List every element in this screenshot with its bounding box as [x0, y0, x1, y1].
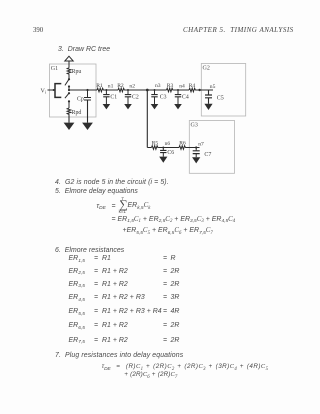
- running head CHAPTER 5. TIMING ANALYSIS: [183, 26, 294, 34]
- resistor R1: [97, 88, 104, 92]
- ground under C4: [174, 104, 182, 109]
- branch wire to R5: [147, 147, 151, 149]
- item 6 heading: [55, 247, 124, 254]
- node output junction dot: [68, 89, 70, 91]
- resistor R6: [179, 146, 186, 150]
- resistor Rpu: [67, 68, 71, 75]
- ground under C6: [159, 157, 167, 163]
- svg-text:C7: C7: [204, 152, 211, 158]
- resistor R2: [118, 88, 125, 92]
- wire Vi to bracket: [48, 89, 56, 91]
- svg-text:Vi: Vi: [41, 88, 47, 94]
- wire n1 to C1: [105, 90, 107, 94]
- svg-text:C1: C1: [110, 95, 117, 101]
- branch wire down: [146, 90, 148, 148]
- capacitor C5: [205, 95, 212, 98]
- wire n3 to C3: [154, 90, 156, 94]
- ground under Rpd: [64, 123, 75, 130]
- wire VDD to Rpu: [68, 61, 70, 68]
- capacitor C2: [125, 95, 131, 97]
- VDD supply symbol: [65, 56, 73, 61]
- svg-text:R6: R6: [179, 141, 186, 147]
- item 7 heading: [55, 352, 183, 359]
- svg-text:Rpd: Rpd: [72, 110, 82, 116]
- wire output rail G1 to R1: [69, 89, 97, 91]
- svg-text:G3: G3: [191, 123, 198, 129]
- node n2 junction dot: [127, 89, 129, 91]
- svg-text:C6: C6: [167, 150, 174, 156]
- input bracket: [55, 84, 61, 98]
- svg-text:n1: n1: [108, 84, 114, 90]
- svg-text:n6: n6: [165, 141, 171, 147]
- svg-text:n5: n5: [210, 84, 216, 90]
- page number 390: [33, 27, 43, 34]
- svg-text:R3: R3: [167, 83, 174, 89]
- wire C6 to ground: [162, 153, 164, 157]
- wire R1 to R2: [104, 89, 118, 91]
- box G1: [50, 64, 97, 117]
- wire Rpu to switch: [68, 74, 70, 79]
- wire n4 to C4: [177, 90, 179, 94]
- svg-text:C3: C3: [160, 95, 167, 101]
- wire C1 to ground: [105, 97, 107, 104]
- wire pmos to output node: [68, 87, 70, 91]
- capacitor Cp junction dot: [86, 89, 88, 91]
- wire R3 to R4: [173, 89, 189, 91]
- nmos switch lever: [65, 93, 69, 98]
- equation tau sum line: [97, 203, 106, 210]
- resistor R3: [167, 88, 174, 92]
- nmos pivot dot: [68, 92, 70, 94]
- wire R4 into G2: [196, 89, 213, 91]
- svg-text:G2: G2: [203, 66, 210, 72]
- wire C7 to ground: [195, 154, 197, 158]
- svg-text:R1: R1: [96, 83, 103, 89]
- capacitor C6: [160, 150, 166, 152]
- wire R5 to R6: [158, 147, 179, 149]
- equation expanded line 1: [112, 216, 116, 223]
- ground under C7: [192, 157, 200, 163]
- svg-text:n4: n4: [179, 84, 185, 90]
- wire Cp to ground: [87, 100, 89, 123]
- equation expanded line 2: [123, 227, 213, 234]
- wire Rpd to ground: [68, 116, 70, 123]
- svg-text:G1: G1: [51, 66, 58, 72]
- svg-text:R4: R4: [189, 83, 196, 89]
- item 5 heading: [55, 188, 138, 195]
- node n6 junction dot: [162, 147, 164, 149]
- item 3 heading: [58, 46, 110, 53]
- node dot pmos top: [68, 78, 70, 80]
- G2 entry junction dot: [198, 89, 200, 91]
- wire C3 to ground: [154, 97, 156, 104]
- wire C4 to ground: [177, 97, 179, 104]
- svg-text:R2: R2: [117, 83, 124, 89]
- svg-text:C4: C4: [182, 95, 189, 101]
- ground under C2: [124, 104, 132, 109]
- svg-text:C2: C2: [132, 95, 139, 101]
- capacitor C7: [193, 151, 200, 154]
- wire rail to Cp: [87, 90, 89, 97]
- node n1 junction dot: [105, 89, 107, 91]
- resistor Rpd: [67, 108, 71, 116]
- wire C2 to ground: [127, 97, 129, 104]
- final equation line 1: [102, 363, 111, 370]
- resistor R4: [189, 88, 196, 92]
- node n3 junction dot: [154, 89, 156, 91]
- input dot: [53, 89, 55, 91]
- box G3: [189, 121, 234, 174]
- wire R2 to R3: [125, 89, 167, 91]
- svg-text:C5: C5: [217, 95, 224, 101]
- ground under Cp: [82, 123, 93, 130]
- item 4 heading: [55, 179, 169, 186]
- svg-text:n3: n3: [155, 83, 161, 89]
- svg-text:Rpu: Rpu: [72, 69, 82, 75]
- svg-text:R5: R5: [152, 141, 159, 147]
- node dot pmos bottom: [68, 85, 70, 87]
- wire R6 into G3: [186, 147, 200, 149]
- wire C5 to ground: [208, 98, 210, 104]
- node n7 junction dot: [195, 146, 197, 148]
- svg-text:n2: n2: [129, 84, 135, 90]
- capacitor C1: [103, 95, 109, 97]
- node n4 junction dot: [177, 89, 179, 91]
- box G2: [201, 64, 245, 117]
- pmos switch lever: [65, 79, 69, 85]
- wire to Rpd: [68, 101, 70, 108]
- ground under C5: [204, 104, 212, 110]
- svg-text:Cp: Cp: [77, 96, 84, 102]
- ground under C3: [151, 104, 159, 109]
- svg-text:n7: n7: [198, 141, 204, 147]
- ground under C1: [103, 104, 111, 109]
- resistor R5: [152, 146, 159, 150]
- branch junction dot: [146, 89, 149, 92]
- wire n5 to C5: [208, 90, 210, 95]
- wire n6 to C6: [162, 148, 164, 151]
- capacitor Cp: [84, 98, 91, 101]
- wire n7 to C7: [195, 148, 197, 151]
- wire n2 to C2: [127, 90, 129, 94]
- node dot nmos bottom: [68, 100, 70, 102]
- capacitor C3: [151, 95, 157, 97]
- final equation line 2: [124, 371, 177, 378]
- resistance table: [69, 255, 85, 262]
- capacitor C4: [175, 95, 181, 97]
